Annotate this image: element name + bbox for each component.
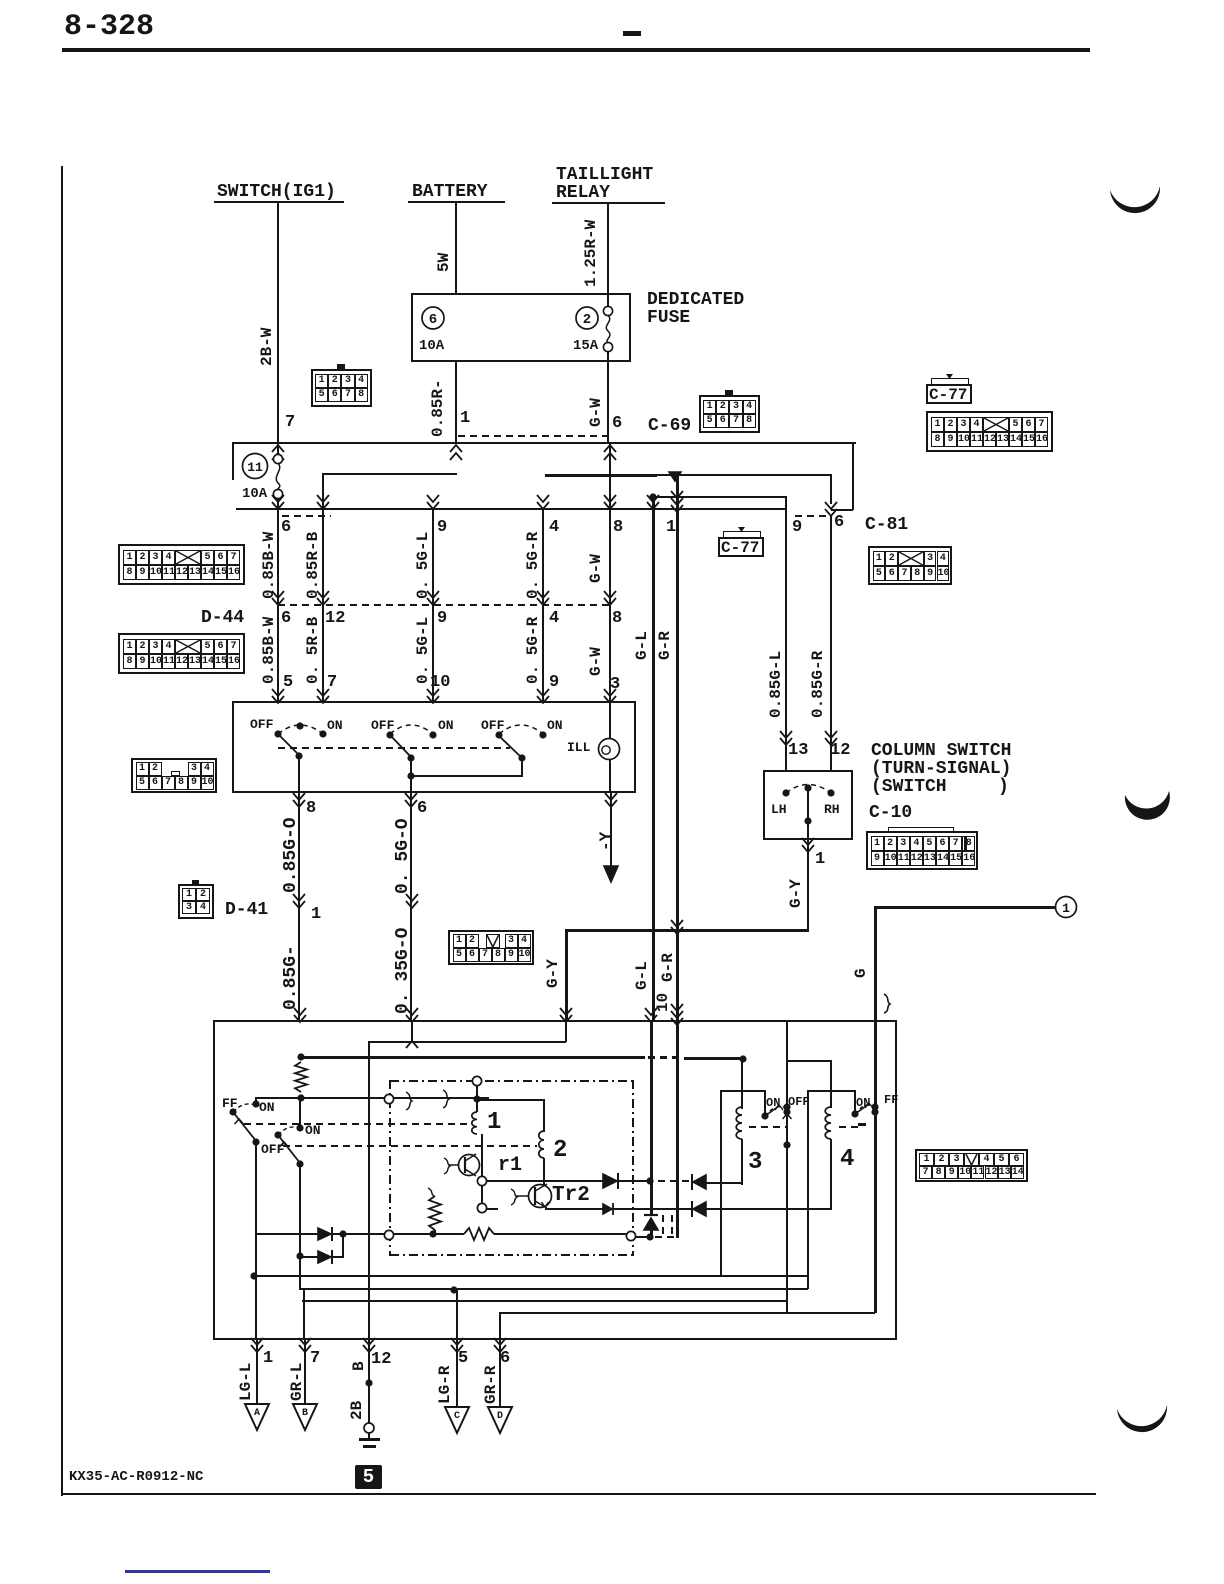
svg-text:2: 2 (583, 312, 591, 328)
svg-text:6: 6 (429, 312, 437, 328)
svg-text:A: A (254, 1408, 260, 1419)
svg-text:B: B (302, 1408, 308, 1419)
svg-text:11: 11 (247, 460, 263, 475)
svg-text:D: D (497, 1411, 503, 1422)
svg-text:1: 1 (1062, 901, 1070, 916)
svg-text:C: C (454, 1411, 460, 1422)
